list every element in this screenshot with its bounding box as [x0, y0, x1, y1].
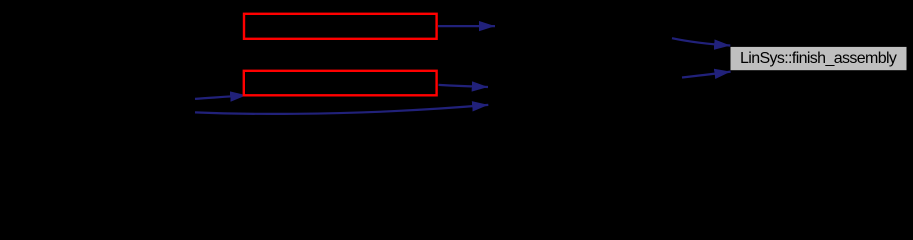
- svg-text:LinSys::finish_assembly: LinSys::finish_assembly: [740, 50, 897, 67]
- wire: edge from red box 1 to hidden middle node 1: [438, 25, 495, 27]
- wire: edge from left caller node into red box 2 (bottom-left corner): [195, 95, 246, 99]
- node: red truncated caller box 1 (label hidden black-on-black): [244, 14, 437, 39]
- node: red truncated caller box 2 (label hidden black-on-black): [244, 71, 437, 96]
- wire: edge from hidden middle node 2 to LinSys::finish_assembly: [682, 72, 731, 78]
- node: LinSys::finish_assembly (current function, grey): [731, 47, 907, 70]
- wire: long curved edge from left caller node to hidden middle node 2: [195, 105, 488, 114]
- wire: edge from hidden middle node 1 to LinSys::finish_assembly: [672, 38, 730, 45]
- wire: edge from red box 2 to hidden middle node 2: [439, 85, 489, 87]
